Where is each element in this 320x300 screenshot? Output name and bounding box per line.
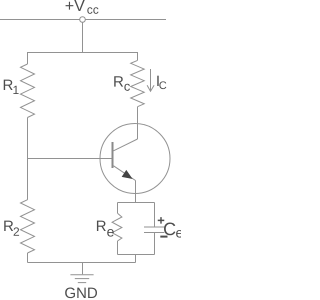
ground bar 2: [75, 278, 89, 280]
ground bar 1: [70, 274, 93, 276]
ground bar 3: [78, 282, 86, 284]
wire emitter lead: [135, 181, 137, 203]
ground stub: [82, 263, 84, 275]
resistor R1: [21, 64, 35, 118]
transistor Q1 body circle: [100, 124, 170, 194]
wire base lead: [28, 158, 113, 160]
label capacitor plus polarity: [158, 217, 165, 224]
wire Re top lead: [117, 203, 119, 214]
resistor Re: [112, 213, 122, 241]
wire Re Ce bottom bus: [118, 254, 155, 256]
label +Vcc: [66, 0, 99, 14]
wire ground rail: [28, 262, 136, 264]
label R1: [4, 80, 19, 94]
current arrow Ic: [147, 69, 154, 91]
wire Rc top lead: [137, 53, 139, 61]
label Rc: [114, 76, 130, 91]
wire R1 top lead: [27, 53, 29, 65]
label GND: [65, 288, 97, 299]
capacitor Ce top plate: [144, 226, 164, 228]
label Ce: [164, 223, 183, 238]
wire top horizontal bus R1 to Rc: [27, 52, 138, 54]
wire R2 bottom lead: [27, 253, 29, 263]
wire Re Ce top bus: [118, 202, 155, 204]
resistor Rc: [131, 60, 145, 106]
label Re: [97, 221, 114, 237]
capacitor Ce bottom plate: [144, 232, 164, 234]
transistor Q1 emitter slant: [114, 166, 136, 181]
wire emitter network to ground rail: [135, 255, 137, 263]
wire Vcc supply rail: [0, 19, 166, 21]
node Vcc terminal (open circle): [80, 17, 86, 23]
transistor Q1 emitter arrowhead: [123, 171, 132, 179]
wire Re bottom lead: [117, 241, 119, 255]
wire collector lead: [137, 107, 139, 139]
transistor Q1 collector slant: [114, 139, 138, 151]
label R2: [4, 221, 19, 236]
resistor R2: [21, 200, 35, 253]
wire R1 bottom to R2 top through base node: [27, 118, 29, 200]
wire Vcc drop to divider bus: [82, 22, 84, 52]
label capacitor minus polarity: [160, 236, 167, 238]
wire Ce bottom lead: [154, 233, 156, 255]
label Ic: [157, 76, 166, 89]
transistor Q1 base bar: [112, 142, 114, 168]
wire Ce top lead: [154, 203, 156, 227]
